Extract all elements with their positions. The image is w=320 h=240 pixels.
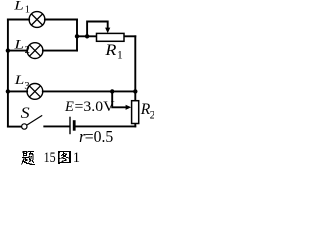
wire L2 branch left bbox=[8, 50, 27, 52]
svg-text:1: 1 bbox=[117, 49, 123, 61]
wire R2 wiper branch bbox=[112, 91, 125, 107]
wire L3 branch right bbox=[43, 90, 136, 92]
wire switch left lead bbox=[8, 126, 22, 128]
wire node-to-R1 bbox=[77, 35, 97, 37]
caption glyph 图 bbox=[58, 151, 71, 164]
svg-text:R: R bbox=[104, 42, 117, 59]
wire right vertical L1-L2 node bbox=[76, 20, 78, 51]
wire L3 branch left bbox=[8, 90, 27, 92]
R2 wiper arrowhead bbox=[126, 105, 132, 110]
lamp L2 bbox=[27, 43, 43, 59]
junction dot L3 wire / R2 wiper branch bbox=[110, 89, 114, 93]
svg-text:2: 2 bbox=[25, 45, 30, 56]
wire R2 bottom lead bbox=[134, 124, 136, 127]
lamp L3 bbox=[27, 84, 43, 100]
svg-text:=0.5: =0.5 bbox=[85, 127, 114, 146]
lamp L1 bbox=[29, 12, 45, 28]
switch S circle pivot bbox=[22, 124, 27, 129]
svg-text:=3.0V: =3.0V bbox=[75, 99, 116, 115]
svg-text:1: 1 bbox=[25, 5, 30, 16]
resistor R2 (rheostat body) bbox=[132, 101, 139, 124]
svg-text:L: L bbox=[13, 72, 24, 87]
resistor R1 (rheostat body) bbox=[97, 33, 125, 41]
caption glyph 题 bbox=[22, 151, 35, 165]
wire right rail down to R2 bbox=[134, 36, 136, 100]
battery E: long positive plate bbox=[69, 117, 71, 135]
svg-text:E: E bbox=[64, 99, 74, 115]
junction dot left rail / L3 bbox=[6, 89, 10, 93]
wire L2 branch right bbox=[43, 50, 77, 52]
svg-text:L: L bbox=[13, 0, 24, 12]
wire bottom rail battery to R2 bbox=[75, 125, 135, 127]
junction dot R1 wiper tap bbox=[85, 34, 89, 38]
svg-text:L: L bbox=[13, 37, 24, 52]
svg-text:2: 2 bbox=[150, 110, 154, 122]
junction dot L3 wire / right rail bbox=[133, 89, 137, 93]
battery E: short negative plate bbox=[73, 120, 76, 131]
svg-text:S: S bbox=[21, 105, 30, 122]
R1 wiper arrowhead bbox=[105, 28, 110, 34]
switch S lever bbox=[27, 115, 43, 125]
svg-text:1: 1 bbox=[73, 150, 80, 166]
svg-text:15: 15 bbox=[44, 150, 56, 166]
wire battery to switch bbox=[44, 125, 69, 127]
wire R1-to-right-rail bbox=[124, 35, 135, 37]
svg-text:3: 3 bbox=[24, 81, 29, 92]
wire R1 wiper short bbox=[87, 22, 108, 37]
wire L1 branch left bbox=[8, 19, 29, 21]
junction dot left rail / L2 bbox=[6, 48, 10, 52]
wire L1 branch right bbox=[45, 19, 77, 21]
wire left rail bbox=[7, 20, 9, 127]
junction dot node / R1 feed bbox=[75, 34, 79, 38]
